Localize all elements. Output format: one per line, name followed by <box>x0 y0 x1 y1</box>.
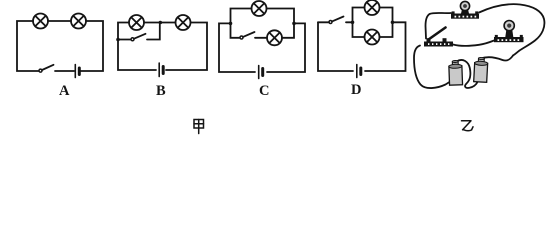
node (circuit D left junction) <box>351 21 355 25</box>
wire (battery2 cap up to right-side wire end) <box>481 56 514 61</box>
wire (socket1 left lead down to switch post) <box>426 13 452 39</box>
lamp L2 (circuit A right) <box>71 14 86 29</box>
wire <box>166 23 207 71</box>
battery cell 1 <box>449 60 463 85</box>
wire <box>318 22 353 71</box>
wire <box>55 70 74 72</box>
battery (circuit A) <box>75 65 79 78</box>
svg-text:D: D <box>351 82 361 98</box>
label 乙 (drawn glyph) <box>462 121 474 131</box>
lamp L1 (circuit B left) <box>129 15 144 30</box>
knife switch (pictorial) <box>424 28 453 47</box>
wire (circuit D lower branch) <box>353 22 393 37</box>
wire (switch right to socket2 left) <box>453 41 494 46</box>
switch S (circuit D, open, in main line) <box>318 17 344 24</box>
wire <box>346 21 353 23</box>
wire (circuit C lower branch) <box>231 23 295 37</box>
node (circuit C left junction) <box>229 22 233 26</box>
svg-text:C: C <box>259 83 269 99</box>
svg-text:A: A <box>59 83 70 99</box>
node (circuit D right junction) <box>391 21 395 25</box>
lamp L2 (circuit D lower branch) <box>365 30 380 45</box>
battery (circuit B) <box>159 63 163 77</box>
node (circuit B, left wire junction) <box>116 38 120 42</box>
switch S (circuit B, open, parallel with L1) <box>131 34 146 41</box>
wire <box>144 22 176 24</box>
wire <box>17 21 39 71</box>
circuit A loop wire <box>17 21 103 71</box>
wire <box>267 23 305 72</box>
wire <box>80 21 103 71</box>
label 甲 (drawn glyph) <box>194 120 204 134</box>
switch S (circuit A, open) <box>39 65 54 72</box>
wire (battery1 cap S-curve to battery2 bottom) <box>457 60 478 88</box>
wire <box>118 23 156 71</box>
svg-text:B: B <box>156 83 166 99</box>
lamp L1 (circuit D upper branch) <box>365 0 380 15</box>
lamp socket base 1 (with bulb) <box>451 11 479 18</box>
node (circuit C right junction) <box>292 22 296 26</box>
battery (circuit C) <box>259 66 263 79</box>
light bulb 2 <box>504 21 514 38</box>
lamp L2 (circuit B right) <box>176 15 191 30</box>
lamp L2 (circuit C lower branch) <box>267 30 282 45</box>
wire <box>48 20 71 22</box>
lamp socket base 2 (with bulb) <box>494 35 524 42</box>
battery (circuit D) <box>357 65 361 78</box>
circuit B loop wire <box>118 23 207 71</box>
switch S (circuit C lower branch, open) <box>240 32 255 39</box>
lamp L1 (circuit C upper branch) <box>252 1 267 16</box>
wire (socket1 right over the top to right side down) <box>479 4 544 55</box>
circuit D outer loop wire <box>318 22 406 71</box>
lamp L1 (circuit A left) <box>33 14 48 29</box>
wire <box>219 23 255 72</box>
circuit C outer loop wire <box>219 23 305 72</box>
node (circuit B, between lamps) <box>159 21 163 25</box>
wire (switch left to battery1 bottom big loop) <box>414 46 450 89</box>
wire (circuit B switch branch) <box>118 25 160 40</box>
wire (circuit C upper branch) <box>231 9 295 24</box>
light bulb 1 <box>460 1 469 13</box>
wire (circuit D upper branch) <box>353 8 393 23</box>
wire <box>365 22 406 71</box>
battery cell 2 <box>474 57 488 82</box>
